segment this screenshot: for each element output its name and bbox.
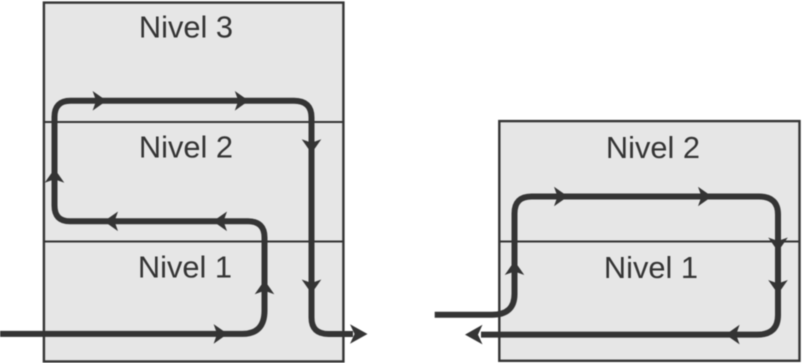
svg-text:Nivel 2: Nivel 2 bbox=[139, 130, 233, 165]
left level box bbox=[44, 3, 344, 362]
arrow H down on right vertical bbox=[302, 139, 322, 153]
arrow P left on bottom line (right box) bbox=[726, 325, 740, 345]
right flow line bbox=[435, 197, 778, 335]
arrow J exit arrowhead right bbox=[350, 324, 368, 344]
svg-text:Nivel 1: Nivel 1 bbox=[604, 250, 698, 285]
svg-text:Nivel 2: Nivel 2 bbox=[606, 130, 700, 165]
arrow C left on mid line bbox=[213, 212, 227, 232]
divider Nivel3/Nivel2 bbox=[45, 121, 343, 123]
arrow I down on right vertical bbox=[302, 280, 322, 294]
arrow Q exit arrowhead left (right box) bbox=[465, 325, 483, 345]
svg-text:Nivel 3: Nivel 3 bbox=[139, 10, 233, 45]
arrow L right on top line (right box) bbox=[554, 187, 568, 207]
arrow E up on left vertical bbox=[45, 169, 65, 183]
left flow line bbox=[0, 101, 353, 334]
arrow N down on right vertical (right box) bbox=[768, 238, 788, 252]
divider Nivel2/Nivel1 bbox=[45, 241, 343, 243]
arrow M right on top line (right box) bbox=[698, 187, 712, 207]
divider Nivel2/Nivel1 (right) bbox=[501, 241, 800, 243]
arrow G right on top line bbox=[235, 91, 249, 111]
arrow F right on top line bbox=[93, 91, 107, 111]
svg-text:Nivel 1: Nivel 1 bbox=[138, 249, 232, 284]
right level box bbox=[499, 121, 799, 361]
arrow D left on mid line bbox=[104, 212, 118, 232]
arrow K up on left vertical (right box) bbox=[505, 261, 525, 275]
arrow O down on right vertical (right box) bbox=[768, 280, 788, 294]
arrow A right on bottom entry line bbox=[214, 324, 228, 344]
arrow B up on riser x=263.5 bbox=[255, 280, 275, 294]
